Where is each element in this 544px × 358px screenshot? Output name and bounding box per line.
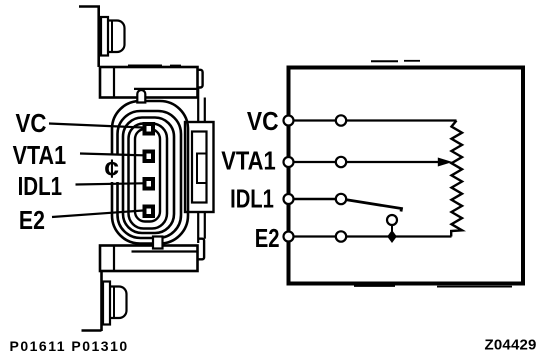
svg-text:¢: ¢	[105, 154, 119, 184]
svg-text:VC: VC	[16, 108, 47, 138]
svg-text:Z04429: Z04429	[485, 337, 537, 354]
svg-text:VC: VC	[247, 106, 279, 136]
svg-text:VTA1: VTA1	[13, 140, 67, 170]
svg-text:IDL1: IDL1	[18, 171, 63, 201]
svg-text:E2: E2	[255, 223, 280, 253]
svg-text:P01611 P01310: P01611 P01310	[10, 338, 129, 354]
svg-text:VTA1: VTA1	[221, 145, 276, 175]
svg-text:E2: E2	[19, 205, 45, 235]
svg-text:IDL1: IDL1	[230, 184, 274, 214]
